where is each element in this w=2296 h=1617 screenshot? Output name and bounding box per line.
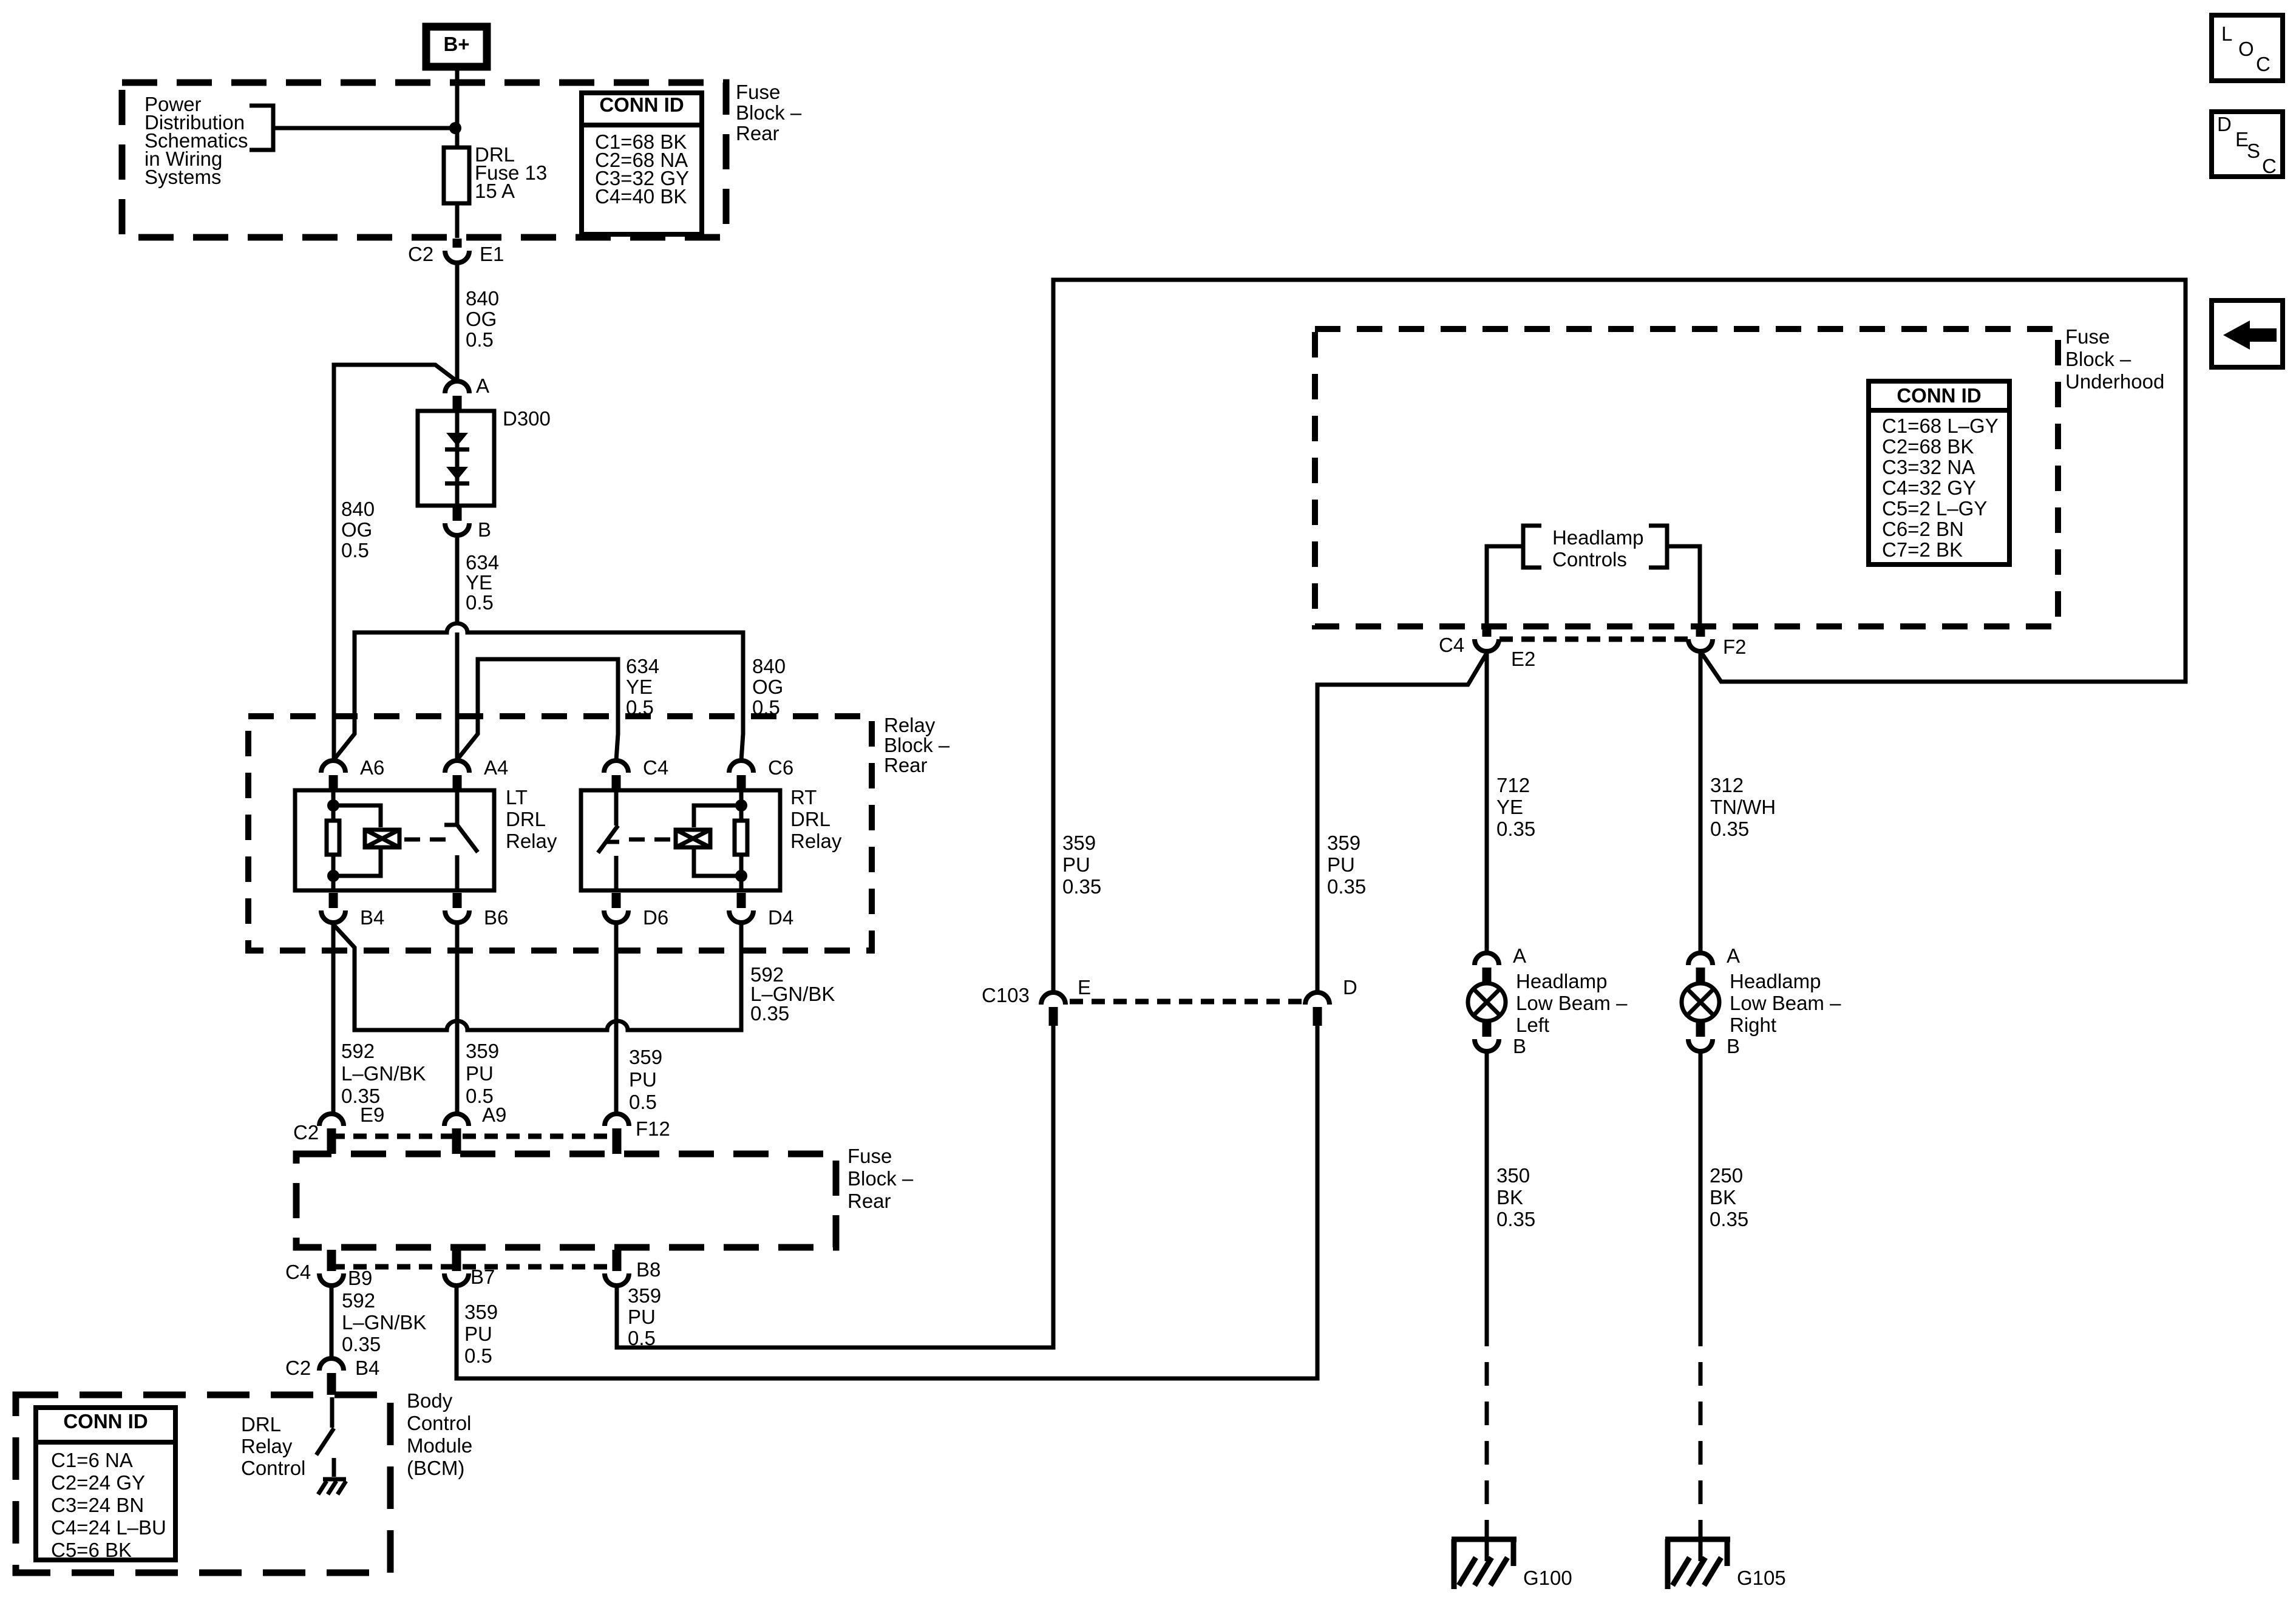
svg-text:C2: C2 xyxy=(285,1357,311,1379)
svg-text:CONN ID: CONN ID xyxy=(1897,384,1981,407)
svg-text:Headlamp: Headlamp xyxy=(1516,970,1607,992)
svg-text:A: A xyxy=(1513,944,1526,967)
svg-text:C6: C6 xyxy=(768,756,793,779)
svg-text:359: 359 xyxy=(466,1040,499,1062)
svg-text:YE: YE xyxy=(466,571,492,594)
svg-text:PU: PU xyxy=(466,1062,494,1085)
svg-text:D6: D6 xyxy=(643,906,668,929)
svg-text:(BCM): (BCM) xyxy=(407,1457,464,1479)
svg-text:B9: B9 xyxy=(348,1267,372,1289)
svg-text:E: E xyxy=(1078,976,1091,998)
svg-text:Fuse: Fuse xyxy=(736,81,780,103)
svg-text:S: S xyxy=(2247,140,2260,162)
svg-text:Module: Module xyxy=(407,1434,472,1457)
svg-text:C4: C4 xyxy=(643,756,668,779)
svg-text:D4: D4 xyxy=(768,906,793,929)
svg-text:0.35: 0.35 xyxy=(1327,875,1366,898)
svg-text:PU: PU xyxy=(464,1323,492,1345)
svg-text:350: 350 xyxy=(1496,1164,1530,1187)
svg-text:Body: Body xyxy=(407,1389,453,1412)
svg-text:592: 592 xyxy=(341,1040,375,1062)
svg-text:Fuse: Fuse xyxy=(2065,325,2110,348)
svg-text:C: C xyxy=(2262,155,2277,177)
svg-text:BK: BK xyxy=(1710,1186,1736,1209)
svg-text:15 A: 15 A xyxy=(475,180,515,202)
svg-text:Underhood: Underhood xyxy=(2065,370,2164,393)
svg-text:359: 359 xyxy=(629,1046,662,1068)
svg-text:0.35: 0.35 xyxy=(1710,818,1749,840)
svg-text:0.5: 0.5 xyxy=(341,539,369,561)
svg-text:0.35: 0.35 xyxy=(1062,875,1101,898)
svg-text:359: 359 xyxy=(1062,832,1096,854)
svg-text:A: A xyxy=(476,375,489,397)
svg-text:F12: F12 xyxy=(636,1117,670,1140)
svg-text:Low Beam –: Low Beam – xyxy=(1516,992,1628,1014)
svg-text:PU: PU xyxy=(628,1306,656,1328)
svg-text:PU: PU xyxy=(1327,853,1355,876)
svg-text:359: 359 xyxy=(1327,832,1360,854)
svg-text:C4: C4 xyxy=(285,1261,311,1283)
svg-text:Relay: Relay xyxy=(241,1435,293,1457)
svg-text:OG: OG xyxy=(341,518,372,541)
svg-text:0.5: 0.5 xyxy=(629,1091,657,1113)
svg-text:D300: D300 xyxy=(503,407,551,430)
svg-text:0.5: 0.5 xyxy=(466,328,494,351)
svg-text:Relay: Relay xyxy=(790,830,842,852)
svg-text:RT: RT xyxy=(790,786,817,808)
svg-text:0.5: 0.5 xyxy=(628,1327,656,1349)
svg-text:712: 712 xyxy=(1496,774,1530,796)
svg-text:312: 312 xyxy=(1710,774,1744,796)
svg-text:Low Beam –: Low Beam – xyxy=(1730,992,1841,1014)
svg-text:YE: YE xyxy=(1496,796,1523,818)
svg-text:634: 634 xyxy=(466,551,499,574)
svg-text:0.35: 0.35 xyxy=(1496,1208,1535,1230)
svg-text:E9: E9 xyxy=(360,1103,384,1126)
svg-text:C4=24 L–BU: C4=24 L–BU xyxy=(51,1516,166,1539)
svg-text:Block –: Block – xyxy=(884,734,950,756)
svg-text:Rear: Rear xyxy=(847,1190,891,1212)
svg-text:250: 250 xyxy=(1710,1164,1743,1187)
svg-text:C5=2 L–GY: C5=2 L–GY xyxy=(1882,497,1987,520)
svg-text:B8: B8 xyxy=(636,1258,661,1281)
svg-text:840: 840 xyxy=(341,498,375,520)
svg-text:Controls: Controls xyxy=(1552,548,1627,571)
svg-text:C4=40 BK: C4=40 BK xyxy=(595,185,687,208)
svg-text:Block –: Block – xyxy=(736,101,802,124)
svg-text:C1=6 NA: C1=6 NA xyxy=(51,1449,133,1471)
svg-text:B: B xyxy=(478,518,491,541)
svg-text:359: 359 xyxy=(628,1284,661,1307)
svg-text:TN/WH: TN/WH xyxy=(1710,796,1776,818)
svg-text:Rear: Rear xyxy=(884,754,928,776)
svg-text:Block –: Block – xyxy=(2065,348,2131,370)
svg-text:L: L xyxy=(2221,22,2232,45)
svg-text:O: O xyxy=(2238,38,2254,60)
svg-text:CONN ID: CONN ID xyxy=(63,1410,148,1432)
svg-text:C7=2 BK: C7=2 BK xyxy=(1882,538,1963,561)
svg-text:C5=6 BK: C5=6 BK xyxy=(51,1539,132,1561)
svg-text:PU: PU xyxy=(629,1068,657,1091)
svg-text:C1=68 L–GY: C1=68 L–GY xyxy=(1882,415,1999,437)
svg-text:Fuse: Fuse xyxy=(847,1145,892,1167)
svg-text:B4: B4 xyxy=(360,906,384,929)
svg-text:A: A xyxy=(1727,944,1740,967)
svg-text:Right: Right xyxy=(1730,1014,1776,1036)
svg-text:0.35: 0.35 xyxy=(1710,1208,1748,1230)
svg-text:E1: E1 xyxy=(480,243,504,265)
svg-text:DRL: DRL xyxy=(506,808,546,830)
svg-text:Systems: Systems xyxy=(144,166,222,188)
svg-text:D: D xyxy=(2217,113,2232,135)
svg-text:B: B xyxy=(1727,1035,1740,1057)
svg-text:634: 634 xyxy=(626,655,659,677)
svg-text:C2=68 BK: C2=68 BK xyxy=(1882,435,1974,458)
svg-text:C2: C2 xyxy=(293,1121,319,1144)
svg-text:F2: F2 xyxy=(1723,636,1747,658)
svg-text:C4=32 GY: C4=32 GY xyxy=(1882,476,1976,499)
svg-text:E2: E2 xyxy=(1511,648,1535,670)
svg-text:C4: C4 xyxy=(1439,634,1464,656)
svg-text:DRL: DRL xyxy=(790,808,830,830)
svg-text:Headlamp: Headlamp xyxy=(1730,970,1821,992)
svg-text:Rear: Rear xyxy=(736,122,779,144)
svg-text:L–GN/BK: L–GN/BK xyxy=(342,1311,426,1334)
svg-text:BK: BK xyxy=(1496,1186,1523,1209)
svg-text:C3=32 NA: C3=32 NA xyxy=(1882,456,1975,478)
svg-text:C2=24 GY: C2=24 GY xyxy=(51,1471,145,1494)
svg-text:B4: B4 xyxy=(355,1357,379,1379)
svg-text:DRL: DRL xyxy=(241,1413,281,1436)
svg-text:PU: PU xyxy=(1062,853,1090,876)
svg-text:Relay: Relay xyxy=(884,714,936,736)
svg-text:CONN ID: CONN ID xyxy=(599,93,684,116)
svg-text:OG: OG xyxy=(466,308,497,330)
svg-text:A4: A4 xyxy=(484,756,508,779)
svg-text:0.5: 0.5 xyxy=(466,591,494,614)
svg-text:359: 359 xyxy=(464,1301,498,1323)
svg-text:G100: G100 xyxy=(1523,1567,1572,1589)
svg-text:G105: G105 xyxy=(1737,1567,1786,1589)
svg-text:B6: B6 xyxy=(484,906,508,929)
svg-text:Left: Left xyxy=(1516,1014,1549,1036)
svg-text:Control: Control xyxy=(407,1412,471,1434)
svg-text:L–GN/BK: L–GN/BK xyxy=(341,1062,426,1085)
svg-text:592: 592 xyxy=(342,1289,375,1312)
svg-text:Control: Control xyxy=(241,1457,305,1479)
svg-text:YE: YE xyxy=(626,676,653,698)
svg-text:LT: LT xyxy=(506,786,528,808)
svg-text:0.35: 0.35 xyxy=(342,1333,381,1355)
svg-text:A9: A9 xyxy=(482,1103,506,1126)
svg-text:A6: A6 xyxy=(360,756,384,779)
svg-text:B: B xyxy=(1513,1035,1526,1057)
svg-text:C6=2 BN: C6=2 BN xyxy=(1882,518,1964,540)
svg-text:C103: C103 xyxy=(982,984,1030,1006)
svg-text:Block –: Block – xyxy=(847,1167,914,1190)
svg-text:OG: OG xyxy=(752,676,783,698)
svg-text:0.35: 0.35 xyxy=(1496,818,1535,840)
svg-text:D: D xyxy=(1343,976,1357,998)
svg-text:Relay: Relay xyxy=(506,830,557,852)
svg-text:C2: C2 xyxy=(408,243,433,265)
svg-text:C3=24 BN: C3=24 BN xyxy=(51,1494,144,1516)
svg-text:840: 840 xyxy=(752,655,786,677)
svg-text:0.35: 0.35 xyxy=(750,1002,789,1025)
svg-text:C: C xyxy=(2256,53,2271,75)
svg-text:Headlamp: Headlamp xyxy=(1552,526,1643,549)
svg-text:840: 840 xyxy=(466,287,499,310)
svg-text:B+: B+ xyxy=(443,33,469,55)
svg-text:0.5: 0.5 xyxy=(464,1344,492,1367)
